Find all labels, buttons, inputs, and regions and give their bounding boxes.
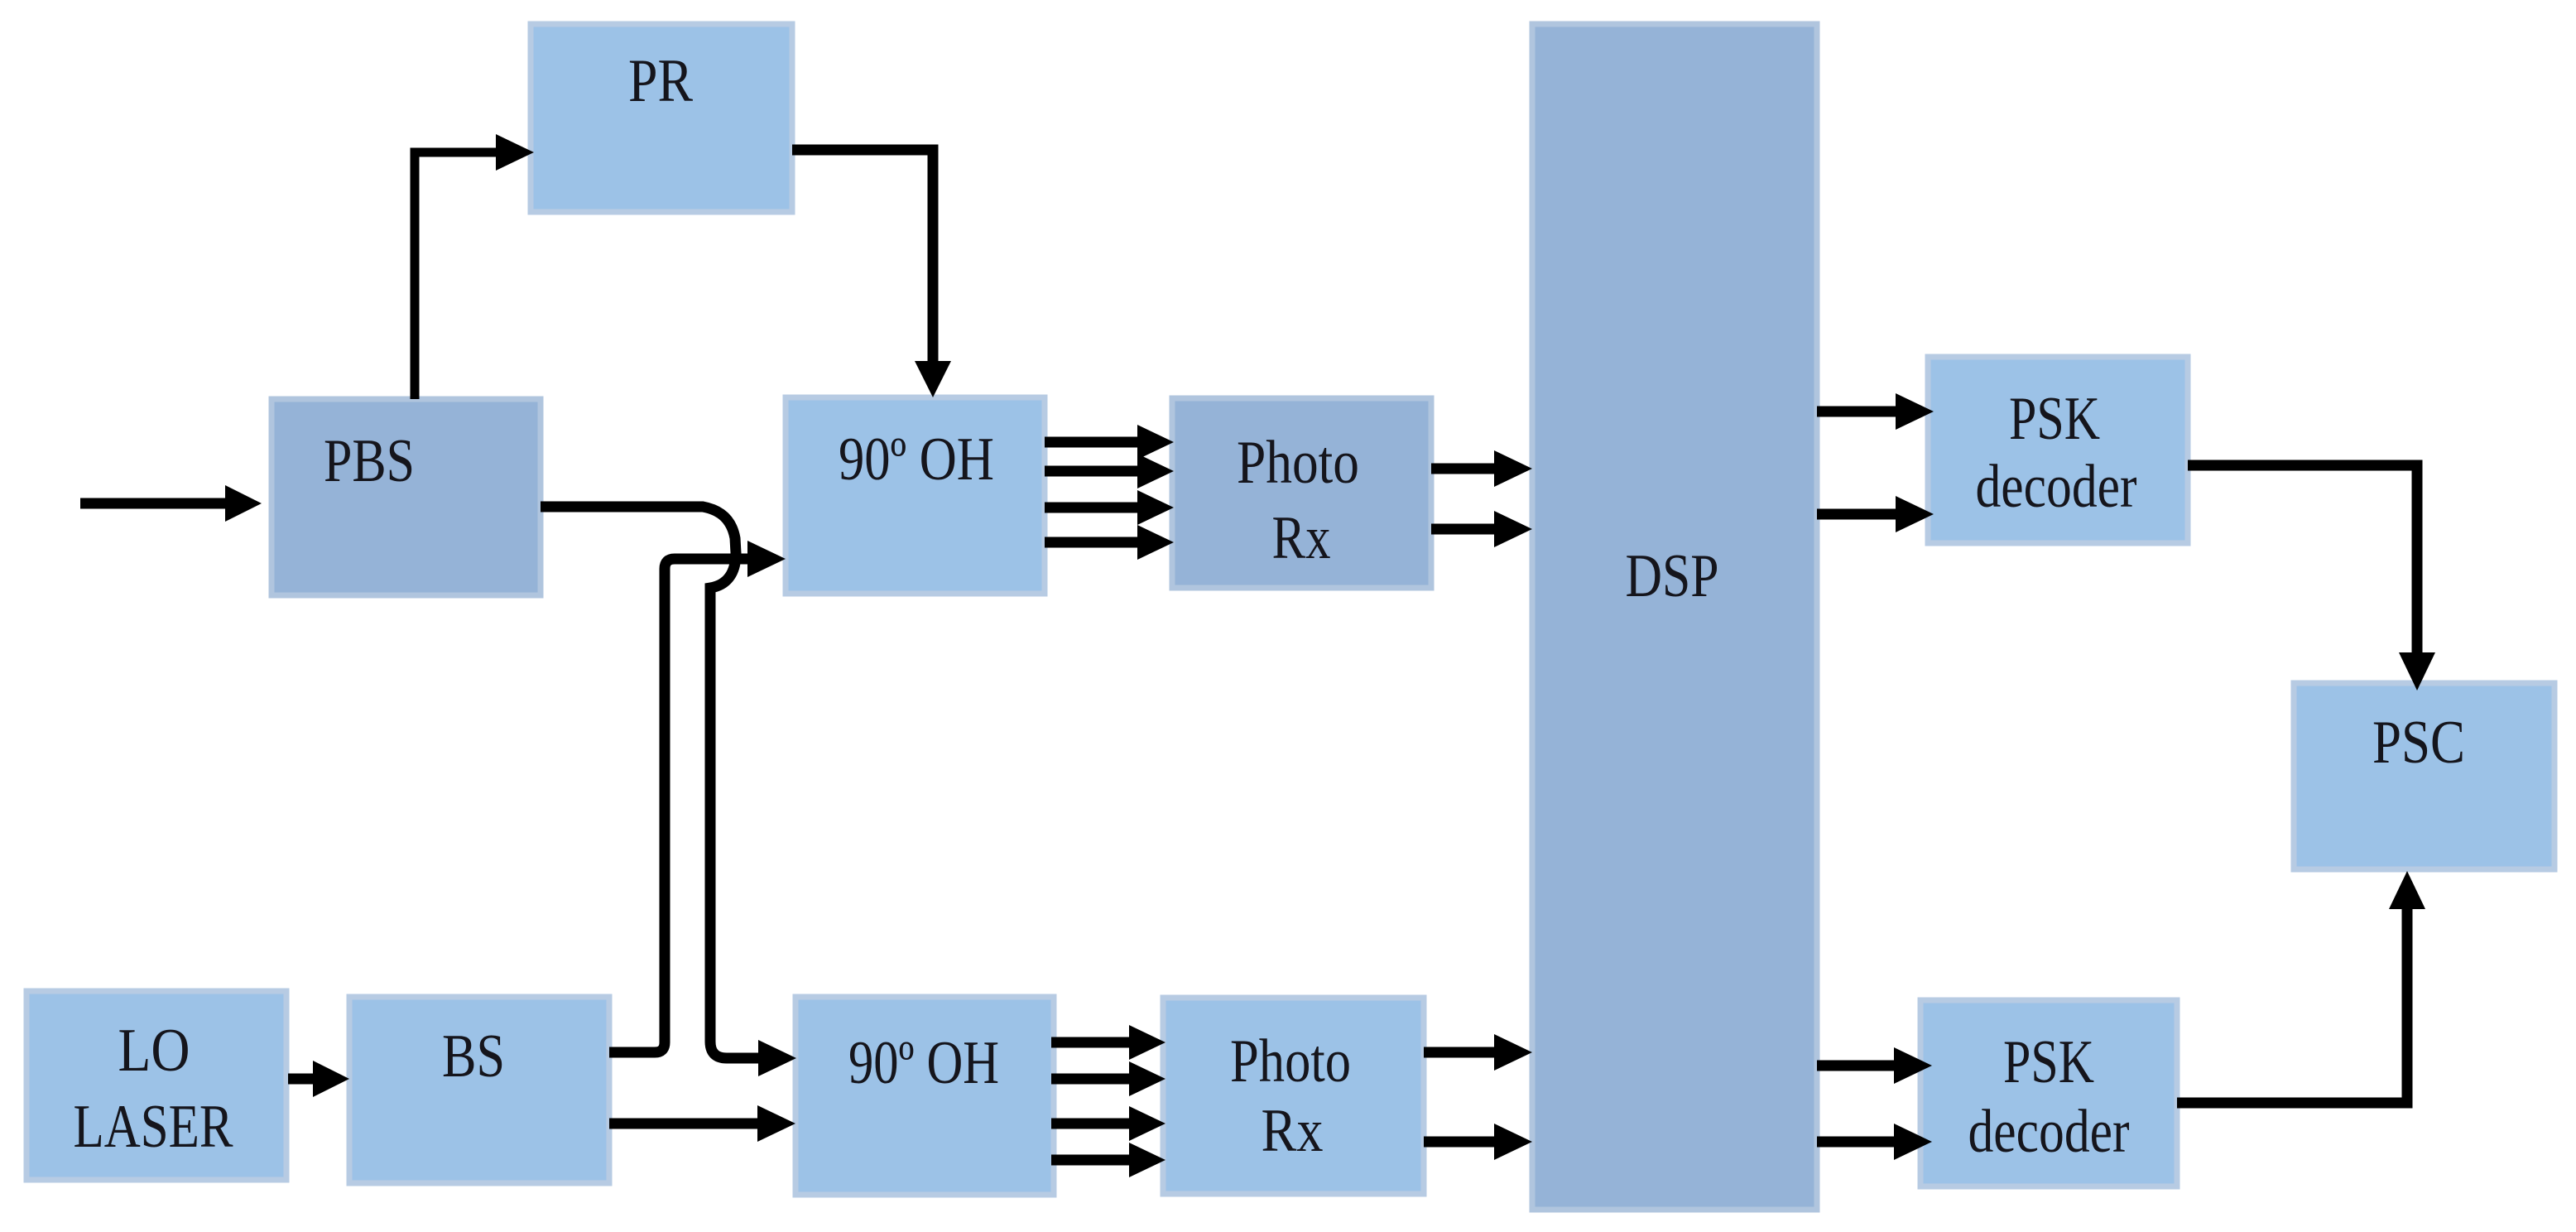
svg-text:Rx: Rx — [1262, 1097, 1324, 1165]
svg-text:90º OH: 90º OH — [839, 426, 994, 493]
block Photo Rx (bottom) — [1163, 998, 1424, 1194]
svg-text:decoder: decoder — [1976, 453, 2137, 521]
svg-text:decoder: decoder — [1968, 1098, 2130, 1166]
svg-text:Photo: Photo — [1237, 429, 1359, 497]
wire 90OH top to Photo Rx arrow 4 — [1045, 525, 1174, 560]
wire PBS up to PR — [415, 134, 534, 399]
svg-text:90º OH: 90º OH — [848, 1029, 999, 1097]
wire DSP to PSK decoder top arrow 2 — [1817, 496, 1934, 532]
wire PR right and down into 90OH top — [792, 150, 951, 397]
wire PBS down to 90OH bottom (signal Y, with hop) — [541, 507, 796, 1076]
block DSP — [1532, 24, 1817, 1210]
block PSK decoder (bottom) — [1920, 1000, 2177, 1186]
wire Photo Rx top to DSP arrow 1 — [1431, 450, 1532, 487]
block PSC — [2294, 683, 2554, 869]
block 90-degree optical hybrid (bottom) — [795, 997, 1054, 1195]
wire input signal into PBS — [80, 485, 262, 522]
wire BS up to 90OH top (LO path X) — [609, 541, 786, 1052]
wire Photo Rx top to DSP arrow 2 — [1431, 511, 1532, 547]
wire 90OH bottom to Photo Rx arrow 1 — [1051, 1025, 1165, 1060]
wire PSK decoder top down into PSC — [2188, 465, 2435, 691]
wire 90OH top to Photo Rx arrow 1 — [1045, 425, 1174, 460]
block Photo Rx (top) — [1172, 398, 1431, 588]
block LO LASER — [26, 991, 286, 1180]
block PBS — [272, 399, 541, 595]
svg-text:DSP: DSP — [1626, 542, 1719, 610]
wire 90OH top to Photo Rx arrow 3 — [1045, 490, 1174, 525]
wire PSK decoder bottom up into PSC — [2177, 871, 2425, 1103]
wire BS into 90OH bottom — [609, 1105, 795, 1142]
block 90-degree optical hybrid (top) — [786, 397, 1045, 594]
block BS — [349, 997, 609, 1183]
wire DSP to PSK decoder bottom arrow 2 — [1817, 1124, 1932, 1160]
svg-text:PR: PR — [628, 47, 694, 115]
svg-text:LASER: LASER — [74, 1093, 234, 1161]
svg-text:PSK: PSK — [2003, 1028, 2094, 1096]
wire DSP to PSK decoder bottom arrow 1 — [1817, 1047, 1932, 1084]
wire 90OH bottom to Photo Rx arrow 4 — [1051, 1143, 1165, 1177]
wire DSP to PSK decoder top arrow 1 — [1817, 393, 1934, 430]
svg-text:PSK: PSK — [2009, 385, 2100, 453]
wire 90OH top to Photo Rx arrow 2 — [1045, 454, 1174, 488]
svg-text:Rx: Rx — [1272, 504, 1331, 572]
svg-text:LO: LO — [118, 1017, 190, 1085]
wire Photo Rx bottom to DSP arrow 2 — [1424, 1124, 1532, 1160]
svg-text:Photo: Photo — [1230, 1027, 1351, 1095]
wire 90OH bottom to Photo Rx arrow 2 — [1051, 1061, 1165, 1096]
wire Photo Rx bottom to DSP arrow 1 — [1424, 1034, 1532, 1071]
wire LO LASER into BS — [288, 1061, 349, 1097]
svg-text:PSC: PSC — [2372, 709, 2465, 777]
svg-text:BS: BS — [442, 1023, 505, 1090]
wire 90OH bottom to Photo Rx arrow 3 — [1051, 1106, 1165, 1141]
svg-text:PBS: PBS — [324, 427, 415, 495]
block PR — [531, 24, 792, 212]
block PSK decoder (top) — [1928, 357, 2188, 543]
